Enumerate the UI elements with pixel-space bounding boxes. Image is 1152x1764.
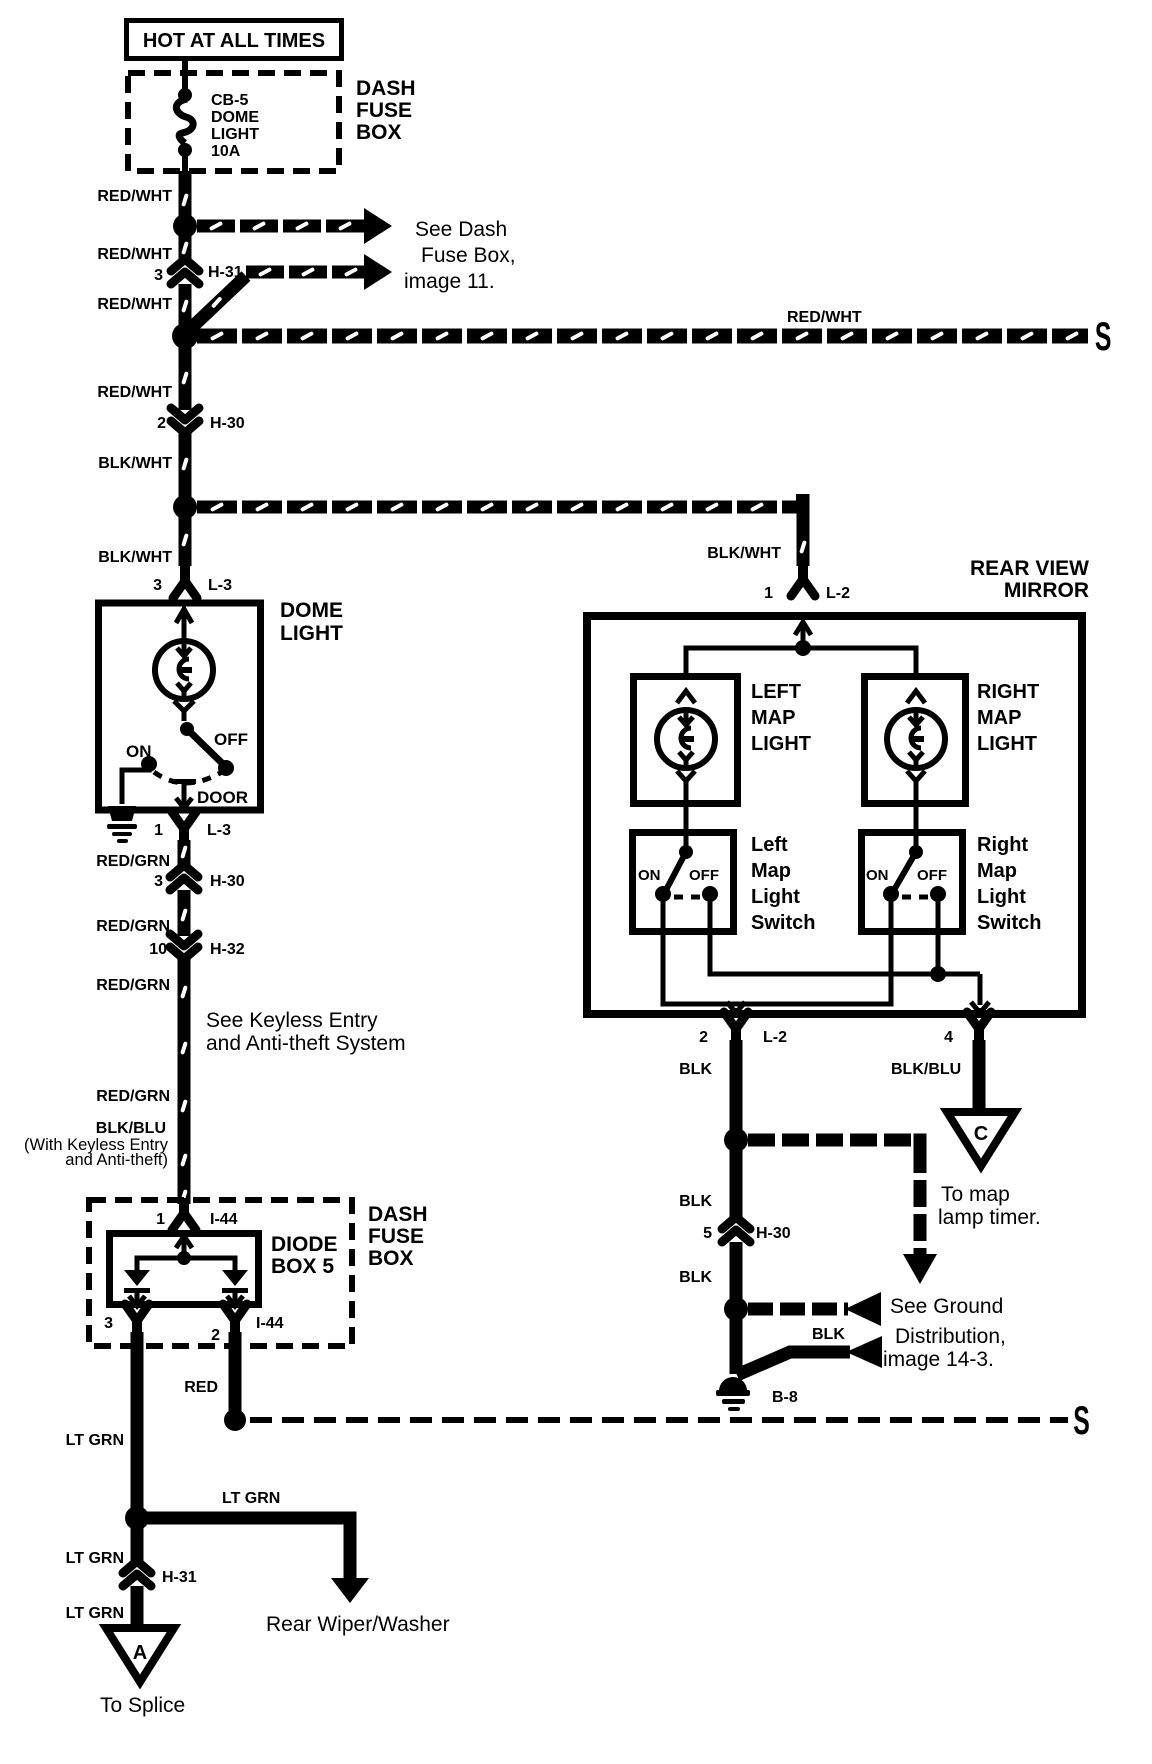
svg-text:BLK/BLU: BLK/BLU xyxy=(96,1120,166,1137)
wire: rail to both diodes xyxy=(137,1258,235,1272)
connector L-2 pin 1 (into mirror) xyxy=(798,564,808,578)
wire BLK: H-30 to junction J6 xyxy=(730,1242,743,1309)
wire into right lamp xyxy=(907,691,925,703)
wire: dome light internal feed with up arrow xyxy=(182,612,187,640)
pin 4 exit chevron xyxy=(971,1002,989,1013)
wire: right switch ON contact to mirror pin 2 xyxy=(736,899,891,1004)
svg-text:Map: Map xyxy=(751,860,791,882)
svg-text:Switch: Switch xyxy=(977,912,1041,934)
dash fuse box (dashed outline) xyxy=(128,73,339,171)
svg-text:L-3: L-3 xyxy=(207,822,231,839)
component box LEFT MAP LIGHT lamp xyxy=(634,677,738,804)
wire LT GRN: H-31 to splice A xyxy=(131,1586,144,1640)
power source box HOT AT ALL TIMES xyxy=(127,21,342,59)
connector I-44 pin 3 (left diode out) xyxy=(125,1304,149,1321)
svg-text:L-2: L-2 xyxy=(826,585,850,602)
svg-text:RIGHT: RIGHT xyxy=(977,681,1039,703)
wire RED/GRN: H-30 to connector H-32 xyxy=(178,890,191,936)
splice symbol C (to map lamp timer) xyxy=(947,1112,1015,1166)
connector L-3 pin 3 (into dome light) xyxy=(180,566,190,580)
wire BLK: J5 to connector H-30 xyxy=(730,1140,743,1220)
wire: distribution rail to both map lights xyxy=(686,648,916,676)
wire RED/GRN: dome light to connector H-30 xyxy=(178,840,191,866)
svg-text:B-8: B-8 xyxy=(772,1389,798,1406)
svg-text:1: 1 xyxy=(156,1211,165,1228)
svg-text:2: 2 xyxy=(699,1029,708,1046)
switch: left map light xyxy=(684,829,689,850)
svg-text:DOOR: DOOR xyxy=(197,788,248,807)
svg-text:10: 10 xyxy=(149,941,167,958)
connector H-32 pin 10 xyxy=(170,934,198,946)
wire: mirror internal feed with up arrow xyxy=(801,625,806,648)
wire BLK/WHT: H-30 to junction J3 xyxy=(179,432,192,507)
ground G1 (B-8) xyxy=(719,1377,747,1391)
svg-text:MAP: MAP xyxy=(751,707,795,729)
svg-text:RED/GRN: RED/GRN xyxy=(96,977,170,994)
connector H-30 pin 5 xyxy=(722,1217,750,1229)
svg-text:LEFT: LEFT xyxy=(751,681,801,703)
svg-text:and Anti-theft System: and Anti-theft System xyxy=(206,1032,406,1055)
svg-text:To Splice: To Splice xyxy=(100,1694,185,1717)
wire into left lamp xyxy=(677,691,695,703)
svg-text:LT GRN: LT GRN xyxy=(222,1490,280,1507)
wire (dashed): J5 branch to map lamp timer xyxy=(748,1134,926,1147)
svg-text:OFF: OFF xyxy=(214,730,248,749)
svg-text:DOME: DOME xyxy=(211,109,259,126)
junction J6 xyxy=(724,1297,748,1321)
wire (dashed) to See Dash Fuse Box arrow xyxy=(197,220,364,233)
svg-text:H-31: H-31 xyxy=(162,1569,197,1586)
svg-text:RED/WHT: RED/WHT xyxy=(97,296,172,313)
junction J5 xyxy=(724,1128,748,1152)
splice symbol A (to splice) xyxy=(106,1628,174,1682)
wire: right switch OFF contact joins rail xyxy=(936,899,941,974)
node: OFF rail junction xyxy=(930,966,946,982)
svg-text:H-30: H-30 xyxy=(210,415,245,432)
lamp: right map light bulb xyxy=(887,710,945,768)
diode D1 xyxy=(124,1270,150,1286)
component box Left Map Light Switch xyxy=(633,833,734,932)
svg-text:image 14-3.: image 14-3. xyxy=(883,1348,994,1371)
wire RED/WHT: J2 to connector H-30 xyxy=(179,336,192,410)
connector I-44 pin 1 (into diode box) xyxy=(179,1198,189,1212)
lamp: left map light bulb xyxy=(657,710,715,768)
svg-text:LT GRN: LT GRN xyxy=(66,1605,124,1622)
svg-text:RED/WHT: RED/WHT xyxy=(97,384,172,401)
component box DOME LIGHT xyxy=(99,603,261,810)
junction J2 xyxy=(172,323,198,349)
wire: diode box feed with up arrow xyxy=(182,1237,187,1256)
ground (dome light case ground) xyxy=(108,806,136,821)
svg-text:image 11.: image 11. xyxy=(404,270,495,293)
node: RED splice dot xyxy=(224,1409,246,1431)
svg-text:BLK/BLU: BLK/BLU xyxy=(891,1061,961,1078)
svg-text:BLK/WHT: BLK/WHT xyxy=(707,545,781,562)
wire: bulb to switch pivot xyxy=(174,701,194,711)
wire LT GRN: branch to Rear Wiper/Washer xyxy=(137,1518,350,1578)
svg-text:BLK/WHT: BLK/WHT xyxy=(98,455,172,472)
svg-text:H-30: H-30 xyxy=(756,1225,791,1242)
svg-text:I-44: I-44 xyxy=(256,1315,284,1332)
svg-text:DIODE: DIODE xyxy=(271,1233,338,1256)
svg-text:4: 4 xyxy=(944,1029,953,1046)
svg-text:BLK: BLK xyxy=(679,1061,712,1078)
svg-text:BOX: BOX xyxy=(356,121,402,144)
svg-text:ON: ON xyxy=(638,867,661,884)
wire RED/WHT: J1 to connector H-31 xyxy=(179,226,192,262)
wire BLK/BLU: mirror pin 4 to splice C xyxy=(973,1040,986,1116)
svg-text:LT GRN: LT GRN xyxy=(66,1550,124,1567)
svg-text:3: 3 xyxy=(104,1315,113,1332)
connector H-30 pin 2 xyxy=(171,408,199,420)
svg-text:L-2: L-2 xyxy=(763,1029,787,1046)
svg-text:CB-5: CB-5 xyxy=(211,92,248,109)
svg-text:ON: ON xyxy=(126,742,152,761)
wire RED/WHT long run to splice continuation S xyxy=(197,329,1088,344)
svg-text:RED/WHT: RED/WHT xyxy=(787,309,862,326)
svg-text:To map: To map xyxy=(941,1183,1010,1206)
svg-text:MIRROR: MIRROR xyxy=(1004,579,1089,602)
svg-text:DASH: DASH xyxy=(368,1203,428,1226)
svg-text:H-30: H-30 xyxy=(210,873,245,890)
junction J4 xyxy=(125,1506,149,1530)
svg-text:I-44: I-44 xyxy=(210,1211,238,1228)
svg-text:RED/GRN: RED/GRN xyxy=(96,918,170,935)
svg-text:BOX 5: BOX 5 xyxy=(271,1255,334,1278)
wire BLK/WHT: J3 across to rear view mirror xyxy=(197,501,797,514)
svg-text:See Dash: See Dash xyxy=(415,218,507,241)
svg-text:RED/WHT: RED/WHT xyxy=(97,188,172,205)
svg-text:Fuse Box,: Fuse Box, xyxy=(421,244,516,267)
svg-text:DASH: DASH xyxy=(356,77,416,100)
svg-text:3: 3 xyxy=(154,873,163,890)
svg-text:RED: RED xyxy=(184,1379,218,1396)
svg-text:Left: Left xyxy=(751,834,788,856)
component box REAR VIEW MIRROR xyxy=(587,616,1082,1014)
svg-text:LIGHT: LIGHT xyxy=(751,733,811,755)
junction J3 xyxy=(173,495,197,519)
svg-text:OFF: OFF xyxy=(917,867,947,884)
svg-text:1: 1 xyxy=(764,585,773,602)
svg-text:LIGHT: LIGHT xyxy=(280,622,343,645)
svg-text:Right: Right xyxy=(977,834,1028,856)
wire BLK: mirror pin 2 to junction J5 xyxy=(730,1040,743,1140)
component box DIODE BOX 5 xyxy=(110,1234,259,1305)
switch: right map light xyxy=(914,829,919,850)
component box RIGHT MAP LIGHT lamp xyxy=(865,677,966,804)
svg-text:See Ground: See Ground xyxy=(890,1295,1003,1318)
svg-text:H-32: H-32 xyxy=(210,941,245,958)
wire LT GRN: J4 to connector H-31 xyxy=(131,1518,144,1564)
svg-text:LT GRN: LT GRN xyxy=(66,1432,124,1449)
wire RED/GRN then BLK/BLU: H-32 down to diode box xyxy=(178,958,191,1204)
svg-text:2: 2 xyxy=(157,415,166,432)
svg-text:BLK: BLK xyxy=(812,1326,845,1343)
svg-text:L-3: L-3 xyxy=(208,577,232,594)
svg-text:A: A xyxy=(133,1642,147,1664)
connector L-2 pin 2 (mirror out) xyxy=(724,1012,748,1029)
svg-text:See Keyless Entry: See Keyless Entry xyxy=(206,1009,378,1032)
switch: dome light ON/OFF/DOOR xyxy=(180,722,194,736)
svg-text:1: 1 xyxy=(154,822,163,839)
wire RED/WHT: fuse box to junction J1 xyxy=(179,171,192,226)
svg-text:DOME: DOME xyxy=(280,599,343,622)
svg-text:Switch: Switch xyxy=(751,912,815,934)
svg-text:BLK: BLK xyxy=(679,1269,712,1286)
contact DOOR xyxy=(172,779,196,784)
wire: HOT bus into fuse box xyxy=(182,60,188,92)
svg-text:LIGHT: LIGHT xyxy=(211,126,259,143)
wire branch diagonal to second See arrow xyxy=(188,276,246,331)
svg-text:Light: Light xyxy=(751,886,800,908)
connector H-31 xyxy=(123,1561,151,1573)
wire: ON contact to ground xyxy=(122,764,149,804)
connector H-31 pin 3 xyxy=(171,259,199,271)
wire: left switch OFF contact to rail xyxy=(710,899,980,974)
connector pin 4 (mirror out) xyxy=(967,1012,991,1029)
svg-text:3: 3 xyxy=(154,267,163,284)
wire RED: diode box to splice dot xyxy=(229,1332,242,1412)
svg-text:BLK: BLK xyxy=(679,1193,712,1210)
connector I-44 pin 2 (right diode out) xyxy=(223,1304,247,1321)
svg-text:LIGHT: LIGHT xyxy=(977,733,1037,755)
node: feed junction xyxy=(795,640,811,656)
svg-text:and Anti-theft): and Anti-theft) xyxy=(65,1151,168,1169)
svg-text:OFF: OFF xyxy=(689,867,719,884)
svg-text:Distribution,: Distribution, xyxy=(895,1325,1006,1348)
svg-text:MAP: MAP xyxy=(977,707,1021,729)
switch DOOR dashed travel arc xyxy=(154,772,222,783)
svg-text:RED/GRN: RED/GRN xyxy=(96,853,170,870)
svg-text:BOX: BOX xyxy=(368,1247,414,1270)
diode D2 xyxy=(222,1270,248,1286)
svg-text:10A: 10A xyxy=(211,143,241,160)
svg-text:RED/WHT: RED/WHT xyxy=(97,246,172,263)
svg-text:FUSE: FUSE xyxy=(356,99,412,122)
wire: left switch ON contact to mirror pin 2 xyxy=(663,899,736,1004)
svg-text:Map: Map xyxy=(977,860,1017,882)
wire LT GRN: diode box to junction J4 xyxy=(131,1332,144,1518)
connector H-30 pin 3 xyxy=(170,865,198,877)
wire RED/WHT: H-31 to junction J2 xyxy=(179,284,192,336)
lamp: dome light bulb xyxy=(155,641,213,699)
wire BLK/WHT: J3 to dome light connector L-3 xyxy=(179,507,192,566)
wire: left bulb to box bottom xyxy=(677,771,695,781)
circuit breaker CB-5 DOME LIGHT 10A xyxy=(178,88,192,102)
wire BLK: J6 to ground G1 xyxy=(730,1309,743,1374)
svg-text:S: S xyxy=(1073,1399,1090,1443)
svg-text:2: 2 xyxy=(211,1327,220,1344)
dash fuse box (dashed outline, lower) xyxy=(89,1200,352,1346)
node: diode box feed junction xyxy=(177,1251,191,1265)
svg-text:Rear Wiper/Washer: Rear Wiper/Washer xyxy=(266,1613,450,1636)
component box Right Map Light Switch xyxy=(862,833,963,932)
wire: rail to mirror pin 4 xyxy=(978,974,983,1005)
svg-text:C: C xyxy=(974,1123,988,1145)
svg-text:FUSE: FUSE xyxy=(368,1225,424,1248)
svg-text:BLK/WHT: BLK/WHT xyxy=(98,549,172,566)
wire: right bulb to box bottom xyxy=(907,771,925,781)
svg-text:lamp timer.: lamp timer. xyxy=(938,1206,1041,1229)
wire (dashed): RED splice across to continuation S xyxy=(250,1417,1068,1423)
junction J1 xyxy=(173,214,197,238)
svg-text:RED/GRN: RED/GRN xyxy=(96,1088,170,1105)
svg-text:REAR VIEW: REAR VIEW xyxy=(970,557,1089,580)
svg-text:5: 5 xyxy=(703,1225,712,1242)
svg-text:S: S xyxy=(1095,315,1112,359)
svg-text:Light: Light xyxy=(977,886,1026,908)
svg-text:HOT AT ALL TIMES: HOT AT ALL TIMES xyxy=(143,30,325,52)
connector L-3 pin 1 (out of dome light) xyxy=(172,812,196,829)
wire (dashed): J6 to See Ground Distribution xyxy=(748,1303,848,1316)
pin 2 exit chevron xyxy=(727,1002,745,1013)
svg-text:3: 3 xyxy=(153,577,162,594)
wire BLK: ground branch to ground distribution xyxy=(737,1352,850,1375)
svg-text:ON: ON xyxy=(866,867,889,884)
